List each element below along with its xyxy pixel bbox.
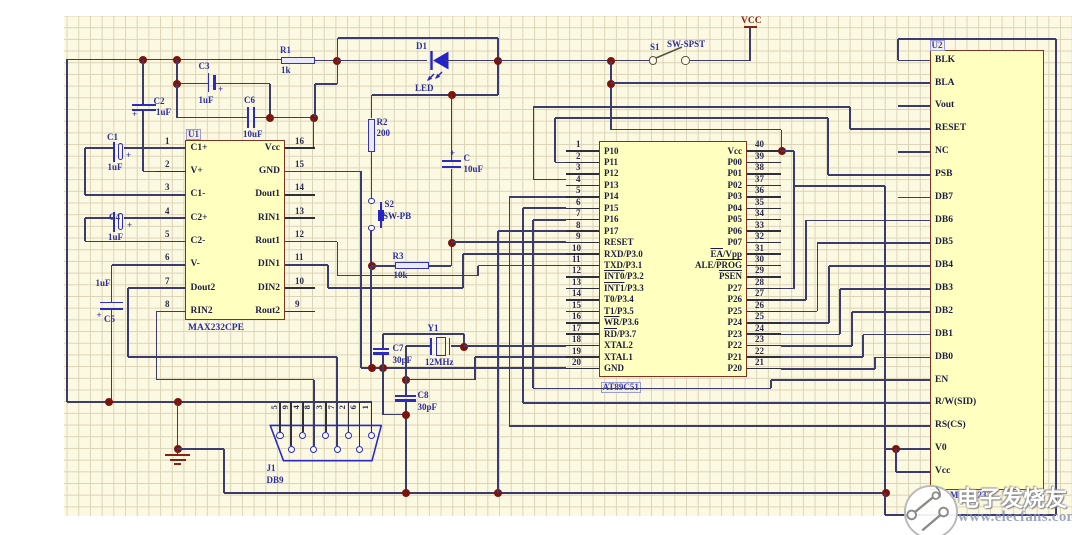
- pin 8 U1 RIN2: [156, 311, 185, 313]
- pin 7 8051 left: [566, 219, 599, 221]
- pin U2 RESET: [935, 124, 966, 134]
- pin U2 DB2: [935, 307, 953, 317]
- pin 40 8051 right: [747, 150, 781, 152]
- capacitor C2: [142, 60, 144, 105]
- pin U2 DB7: [935, 193, 953, 203]
- pin U2 DB3: [935, 284, 953, 294]
- capacitor C8: [405, 346, 407, 396]
- wire DB9 pin 4: [302, 402, 304, 432]
- wire left rail: [66, 60, 68, 403]
- node junction P17 gnd: [494, 489, 502, 497]
- wire R2 to S2: [371, 152, 373, 198]
- pin 13 8051 left: [566, 288, 599, 290]
- node junction cap C feed: [448, 91, 456, 99]
- node junction XTAL1/C8: [402, 376, 410, 384]
- capacitor C5: [112, 264, 186, 266]
- pin U2 R/W(SID): [935, 398, 976, 408]
- wire S2 to node: [370, 231, 372, 266]
- wire P17 to gnd rail: [498, 230, 566, 232]
- pin 18 8051 left: [566, 345, 599, 347]
- pin 14 U1 Dout1: [285, 194, 315, 196]
- wire DB9 pin 7: [326, 405, 335, 409]
- node junction C8 gnd: [402, 411, 410, 419]
- node junction C6 net: [269, 84, 271, 118]
- node junction LED right: [494, 57, 502, 65]
- wire bottom rail: [224, 492, 885, 494]
- node junction V0: [892, 445, 900, 453]
- wire DB1 line: [863, 334, 930, 336]
- watermark text: [957, 488, 1067, 510]
- pin 33 8051 right: [747, 230, 781, 232]
- capacitor C3: [176, 60, 178, 84]
- pin 6 U1 V-: [156, 264, 185, 266]
- node junction top1: [139, 56, 147, 64]
- microcontroller U3 AT89C51: [599, 141, 747, 377]
- wire DIN1 to 8051 RXD: [285, 264, 328, 266]
- pin 12 U1 Rout1: [285, 241, 315, 243]
- pin U2 DB6: [935, 216, 953, 226]
- pin 4 U1 C2+: [156, 217, 185, 219]
- wire ground jog to bottom rail: [177, 448, 224, 450]
- pin 16 U1 Vcc: [285, 147, 315, 149]
- pin DB9 top 5: [368, 432, 375, 439]
- node junction S2/R3: [368, 262, 376, 270]
- capacitor C1: [124, 147, 185, 149]
- power VCC: [744, 26, 757, 28]
- pin 24 8051 right: [747, 333, 781, 335]
- pin 12 8051 left: [566, 276, 599, 278]
- pin U2 Vout: [935, 101, 954, 111]
- pin U2 EN: [935, 376, 948, 386]
- pin 30 8051 right: [747, 265, 781, 267]
- wire RESET U2 line: [533, 106, 850, 108]
- wire to ground: [177, 402, 179, 449]
- pin 25 8051 right: [747, 322, 781, 324]
- node junction R1 right: [333, 57, 341, 65]
- pin 6 8051 left: [566, 208, 599, 210]
- wire GND from U1 pin15: [285, 171, 361, 173]
- node junction bottom right: [882, 489, 890, 497]
- pin 23 8051 right: [747, 345, 781, 347]
- pin 8 8051 left: [566, 230, 599, 232]
- pin U2 Vcc: [935, 467, 950, 477]
- capacitor C4: [124, 217, 185, 219]
- wire RESET to 8051 pin9: [451, 241, 566, 243]
- pin U2 DB0: [935, 353, 953, 363]
- node junction gnd2: [379, 364, 387, 372]
- pin U2 RS(CS): [935, 421, 966, 431]
- pin 21 8051 right: [747, 368, 781, 370]
- wire to switch S1: [498, 60, 649, 62]
- display U2 LCD: [930, 50, 1044, 490]
- pin U2 BLA: [935, 79, 955, 89]
- pin 28 8051 right: [747, 288, 781, 290]
- wire Vcc jog to U1 pin16: [337, 61, 339, 85]
- wire Rout1 to 8051 TXD: [285, 241, 337, 243]
- pin 5 8051 left: [566, 196, 599, 198]
- pin 1 U1 C1+: [156, 147, 185, 149]
- wire DB9 pin 9: [290, 402, 292, 446]
- node junction S1 branch: [607, 57, 615, 65]
- pin U2 PSB: [935, 170, 952, 180]
- pin 11 U1 DIN1: [285, 264, 315, 266]
- wire XTAL1 to 8051 pin19: [475, 356, 566, 358]
- pin 31 8051 right: [747, 253, 781, 255]
- node junction C5 gnd: [105, 398, 113, 406]
- wire XTAL2 to 8051 pin18: [464, 345, 566, 347]
- node junction gnd rail: [174, 398, 182, 406]
- capacitor C 10uF: [451, 95, 453, 160]
- wire C8 gnd jog: [382, 368, 384, 414]
- pin 20 8051 left: [566, 368, 599, 370]
- wire DB2 line: [852, 311, 930, 313]
- node junction XTAL2: [460, 343, 468, 351]
- pin DB9 top 1: [276, 432, 283, 439]
- pin 15 U1 GND: [285, 171, 315, 173]
- pin 16 8051 left: [566, 322, 599, 324]
- wire RS line: [509, 425, 930, 427]
- pin 9 8051 left: [566, 242, 599, 244]
- wire S1 to VCC: [690, 60, 750, 62]
- pin 15 8051 left: [566, 311, 599, 313]
- pin 39 8051 right: [747, 162, 781, 164]
- pin 11 8051 left: [566, 265, 599, 267]
- pin U2 BLK: [935, 56, 955, 66]
- ground: [177, 449, 179, 455]
- wire NC stub: [898, 151, 930, 153]
- watermark logo: [901, 484, 961, 535]
- pin 3 8051 left: [566, 173, 599, 175]
- wire DB9 pin 5: [279, 402, 281, 432]
- pin DB9 bottom 4: [356, 446, 363, 453]
- node junction RESET net: [448, 239, 456, 247]
- pin 38 8051 right: [747, 173, 781, 175]
- wire DB6 line: [806, 220, 930, 222]
- pin 14 8051 left: [566, 299, 599, 301]
- wire DB3 line: [840, 288, 930, 290]
- wire BLA line: [611, 82, 930, 84]
- pin U2 DB1: [935, 330, 953, 340]
- pin U2 V0: [935, 444, 947, 454]
- pin 2 U1 V+: [156, 171, 185, 173]
- pin 27 8051 right: [747, 299, 781, 301]
- pin DB9 top 3: [322, 432, 329, 439]
- pin 17 8051 left: [566, 333, 599, 335]
- pin DB9 bottom 3: [334, 446, 341, 453]
- pin DB9 top 2: [299, 432, 306, 439]
- pin 22 8051 right: [747, 356, 781, 358]
- pin U2 DB5: [935, 238, 953, 248]
- wire RIN2 to DB9: [157, 311, 186, 313]
- node junction BLA: [607, 80, 615, 88]
- wire right long vertical: [884, 186, 886, 493]
- wire VCC over 8051: [611, 129, 781, 131]
- crystal Y1 12MHz: [406, 345, 430, 347]
- wire DB5 line: [817, 242, 930, 244]
- wire gnd rail: [67, 401, 372, 403]
- wire PSB line: [555, 117, 828, 119]
- pin 2 8051 left: [566, 162, 599, 164]
- resistor R2: [371, 95, 373, 118]
- pin U2 DB4: [935, 261, 953, 271]
- node junction ground: [174, 445, 182, 453]
- wire V0 to Vcc jog: [895, 449, 897, 472]
- diode D1 LED: [424, 40, 456, 85]
- wire S2 node down: [370, 266, 372, 368]
- wire DB9 pin 1: [371, 402, 373, 432]
- node junction Vcc net: [310, 114, 318, 122]
- pin DB9 bottom 1: [288, 446, 295, 453]
- pin 4 8051 left: [566, 185, 599, 187]
- wire Vout stub: [898, 105, 930, 107]
- wire DB9 pin 3: [325, 402, 327, 432]
- wire DB4 line: [829, 265, 930, 267]
- connector J1 DB9: [260, 418, 392, 470]
- wire R1 right: [315, 60, 337, 62]
- wire C1 to U1 pin3: [85, 194, 185, 196]
- wire DB9 pin 8: [303, 405, 312, 409]
- pin 36 8051 right: [747, 196, 781, 198]
- pin 32 8051 right: [747, 242, 781, 244]
- wire LED bottom return: [372, 94, 498, 96]
- node junction top2: [173, 56, 181, 64]
- wire LED cathode: [445, 60, 498, 62]
- resistor R3: [371, 265, 395, 267]
- wire BLK loop: [898, 60, 930, 62]
- wire DB9 pin 6: [359, 402, 361, 446]
- op-amp U1 MAX232CPE: [185, 140, 285, 320]
- wire DB9 pin 2: [348, 402, 350, 432]
- pin 9 U1 Rout2: [285, 311, 315, 313]
- wire C7 top loop: [383, 333, 464, 335]
- pin 5 U1 C2-: [156, 241, 185, 243]
- wire R3 right: [429, 265, 451, 267]
- pin 34 8051 right: [747, 219, 781, 221]
- wire V0 line: [885, 448, 930, 450]
- wire RW line: [523, 402, 930, 404]
- pin 10 8051 left: [566, 253, 599, 255]
- wire C4 to U1 pin5: [85, 241, 185, 243]
- pin 7 U1 Dout2: [156, 287, 185, 289]
- capacitor C6: [176, 84, 178, 118]
- pin U2 NC: [935, 147, 949, 157]
- node junction C8 bottom: [402, 489, 410, 497]
- pin 35 8051 right: [747, 208, 781, 210]
- node junction C3 left: [173, 80, 181, 88]
- node junction 8051 Vcc: [778, 147, 786, 155]
- pin 19 8051 left: [566, 356, 599, 358]
- wire Dout2 to DB9: [128, 287, 185, 289]
- switch S1 SW-SPST: [649, 56, 657, 64]
- pin 29 8051 right: [747, 276, 781, 278]
- pin 26 8051 right: [747, 311, 781, 313]
- node junction gnd1: [368, 364, 376, 372]
- pin 3 U1 C1-: [156, 194, 185, 196]
- wire top rail: [66, 59, 281, 61]
- wire EN line: [771, 379, 930, 381]
- pin 1 8051 left: [566, 150, 599, 152]
- wire LED anode: [337, 60, 428, 62]
- wire Vcc to P27 column: [793, 151, 795, 289]
- resistor R1: [281, 57, 315, 64]
- wire Vcc jog right: [794, 185, 885, 187]
- pin 37 8051 right: [747, 185, 781, 187]
- pin DB9 top 4: [345, 432, 352, 439]
- wire VCC branch down: [610, 61, 612, 130]
- capacitor C7: [382, 334, 384, 348]
- pin 10 U1 DIN2: [285, 287, 315, 289]
- wire top loop: [337, 38, 339, 60]
- switch S2 SW-PB: [368, 198, 374, 204]
- pin DB9 bottom 2: [310, 446, 317, 453]
- wire DB7 stub: [898, 197, 930, 199]
- pin 13 U1 RIN1: [285, 217, 315, 219]
- wire DB0 line: [875, 357, 930, 359]
